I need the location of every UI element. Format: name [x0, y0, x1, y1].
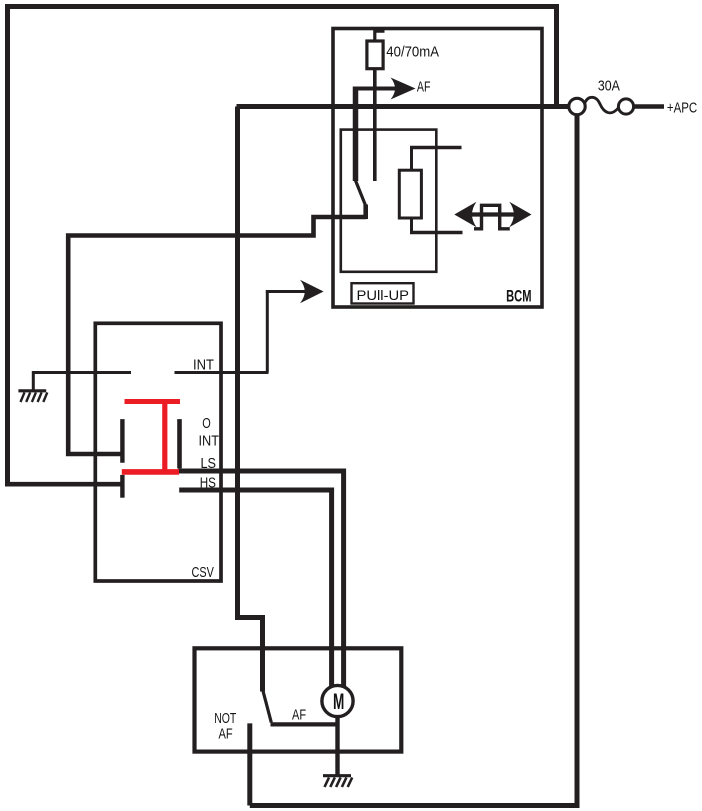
CSV switch box	[95, 323, 221, 581]
PULL-UP box	[352, 283, 414, 303]
ground G1 hatches	[21, 392, 48, 402]
resistor 40/70mA bottom lead down to lever contact	[373, 68, 377, 181]
motor bottom stem to ground	[335, 712, 339, 775]
svg-text:AF: AF	[219, 725, 233, 742]
ground G2 bar	[323, 774, 351, 777]
resistor R2 body	[399, 170, 421, 218]
svg-text:40/70mA: 40/70mA	[386, 43, 439, 60]
svg-text:CSV: CSV	[192, 564, 214, 581]
wire NOT AF contact drop	[247, 723, 252, 805]
BCM inner box	[341, 130, 437, 272]
svg-text:30A: 30A	[598, 78, 620, 95]
ground G2 hatches	[325, 778, 353, 788]
svg-text:PUll-UP: PUll-UP	[357, 287, 410, 303]
arrowhead AF	[391, 78, 416, 100]
resistor R2 bottom stem	[410, 217, 413, 233]
resistor 40/70mA body	[367, 41, 383, 69]
pulse waveform	[474, 205, 510, 229]
wire AF output down from arrow line	[353, 87, 359, 182]
INT wire left segment from ground	[32, 371, 131, 374]
svg-text:HS: HS	[200, 474, 216, 491]
svg-text:AF: AF	[417, 78, 431, 95]
svg-text:INT: INT	[193, 357, 214, 374]
wire bottom rail	[250, 803, 580, 808]
bottom switch lever	[263, 691, 271, 723]
resistor R2 top stem	[410, 148, 413, 171]
arrowhead pulse left	[454, 202, 476, 227]
svg-text:AF: AF	[292, 707, 306, 724]
lever contact nub	[363, 205, 368, 220]
INT wire riser	[266, 292, 269, 373]
wire R2 top horizontal	[410, 146, 462, 149]
HS wire to motor	[179, 490, 331, 690]
contact bar lower-left	[120, 475, 124, 498]
LS wire to motor	[178, 471, 344, 690]
ground G1 stem	[32, 371, 35, 390]
arrowhead pulse right	[509, 202, 531, 227]
red wiper lever	[122, 399, 180, 475]
wire B from +APC down to bottom switch	[238, 107, 263, 692]
motor box	[195, 648, 402, 751]
wire from BCM lever left and down to CSV contact	[68, 217, 366, 454]
BCM box	[333, 29, 542, 308]
wire AF lever to motor stem	[271, 722, 338, 726]
fuse 30A right terminal	[618, 99, 633, 114]
contact bar right (LS)	[177, 419, 182, 468]
svg-text:O: O	[202, 415, 211, 432]
pulse double-arrow shaft	[471, 212, 514, 216]
wire R2 bottom horizontal	[410, 231, 463, 234]
wire lower-left to CSV contact	[5, 482, 122, 487]
INT arrow line	[266, 290, 305, 293]
resistor 40/70mA top stem with nub	[375, 31, 385, 41]
fuse 30A element	[585, 97, 619, 113]
arrowhead INT pointer	[300, 280, 324, 303]
contact bar upper-left	[120, 419, 124, 463]
ground G1 bar	[18, 389, 46, 392]
wire right bus vertical	[575, 112, 580, 806]
wire +APC feed horizontal	[237, 104, 571, 109]
INT wire right segment to riser	[175, 371, 269, 374]
svg-text:BCM: BCM	[506, 287, 531, 306]
svg-text:LS: LS	[201, 455, 217, 472]
svg-text:+APC: +APC	[667, 99, 697, 116]
svg-text:M: M	[333, 689, 344, 714]
svg-text:INT: INT	[199, 433, 220, 450]
wire +APC stub	[634, 104, 664, 108]
motor M circle	[322, 685, 353, 716]
transistor lever in BCM	[356, 181, 366, 218]
wire top rail from left corner to right drop	[8, 7, 557, 485]
wire AF arrow line	[353, 87, 398, 91]
fuse 30A left terminal	[569, 98, 585, 114]
